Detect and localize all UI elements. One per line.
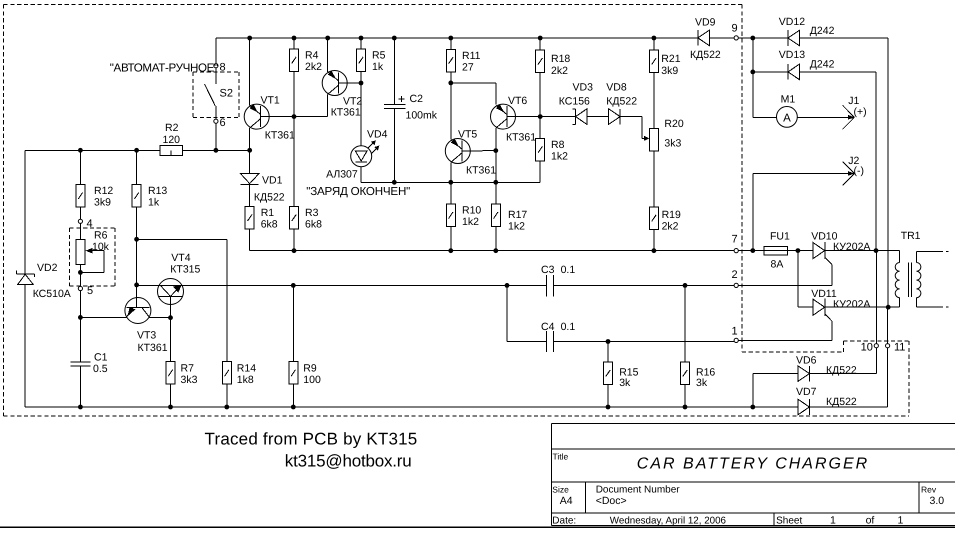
label R9 value (303, 362, 321, 386)
wire R18 top (539, 38, 541, 50)
wire node5 down (79, 291, 81, 363)
wire VT2 base (339, 82, 361, 84)
wire VD4 bottom (361, 167, 394, 183)
transistor VT4 (158, 279, 184, 305)
wire M1 to J1 (797, 116, 852, 118)
svg-text:2k2: 2k2 (305, 61, 322, 73)
svg-text:3k9: 3k9 (661, 65, 678, 77)
svg-text:Document Number: Document Number (596, 484, 681, 495)
label C3 (541, 264, 575, 276)
wire R10 top (450, 182, 452, 204)
junction (325, 36, 330, 41)
junction (292, 248, 297, 253)
svg-text:"АВТОМАТ-РУЧНОЕ": "АВТОМАТ-РУЧНОЕ" (110, 61, 218, 74)
resistor R16 (681, 362, 690, 385)
diode VD6 (798, 366, 810, 382)
diode VD8 (609, 109, 621, 125)
node 5 (78, 286, 82, 290)
label VD1 (254, 175, 285, 204)
junction (652, 36, 657, 41)
label R20 (664, 118, 683, 150)
wire R16 bottom (684, 385, 686, 408)
bottom border (0, 526, 955, 528)
resistor R4 (290, 49, 299, 72)
wire R9 bottom (292, 384, 294, 407)
label R15 value (619, 367, 638, 390)
svg-text:R12: R12 (94, 185, 113, 197)
svg-text:6k8: 6k8 (305, 219, 322, 231)
wire R5 bottom (360, 71, 362, 83)
node 7 (734, 249, 738, 253)
label VT6 (506, 95, 536, 143)
svg-text:2k2: 2k2 (662, 220, 679, 232)
svg-text:Title: Title (553, 451, 569, 461)
junction (606, 405, 611, 410)
svg-text:R3: R3 (305, 207, 319, 219)
svg-text:VD1: VD1 (262, 175, 283, 187)
wire VD6 branch (753, 374, 798, 407)
svg-text:3k: 3k (619, 377, 631, 389)
wire VD13 line (753, 71, 788, 73)
wire base net long (137, 284, 547, 286)
wire R15 bottom (607, 385, 609, 408)
wire C4 line right (553, 341, 734, 343)
svg-text:100mk: 100mk (406, 110, 438, 122)
transformer TR1 core (909, 263, 912, 298)
junction (214, 148, 219, 153)
svg-text:7: 7 (732, 234, 738, 246)
wire R16 top (684, 285, 686, 362)
resistor R14 (222, 362, 231, 385)
svg-text:R17: R17 (508, 209, 527, 221)
junction (134, 283, 139, 288)
svg-text:VT4: VT4 (171, 252, 190, 264)
wire C2 bottom (393, 109, 395, 183)
wire R21-R20 (653, 73, 655, 129)
svg-text:VT6: VT6 (508, 95, 527, 107)
svg-text:S2: S2 (220, 87, 233, 99)
wire R4 top (293, 38, 295, 49)
junction (448, 180, 453, 185)
footer text (205, 429, 418, 470)
label R4 value (305, 50, 322, 74)
transistor VT2 (322, 70, 347, 95)
svg-text:VT5: VT5 (458, 129, 477, 141)
junction (247, 36, 252, 41)
wire R21 top (653, 38, 655, 50)
wire VT5 base (462, 150, 496, 152)
label R17 value (508, 209, 527, 233)
wire R19 bottom (653, 229, 655, 250)
wire T11 up (887, 307, 889, 343)
label J1 (848, 95, 866, 118)
svg-text:100: 100 (303, 374, 321, 386)
wire R11 top (450, 38, 452, 49)
svg-text:1k: 1k (372, 61, 384, 73)
svg-text:VT3: VT3 (137, 330, 156, 342)
svg-text:КС510А: КС510А (33, 288, 71, 300)
wire VD10 in (798, 250, 813, 252)
node 9 (734, 36, 738, 40)
svg-text:C3: C3 (541, 264, 555, 276)
wire VT4 emitter (170, 304, 172, 361)
svg-text:C2: C2 (410, 93, 424, 105)
svg-text:КТ315: КТ315 (170, 264, 200, 276)
wire J2 (753, 174, 853, 251)
label VD11 (811, 288, 870, 310)
junction (224, 405, 229, 410)
wire VD3-VD8 (587, 116, 609, 118)
svg-text:1k: 1k (148, 197, 160, 209)
svg-text:Wednesday, April 12, 2006: Wednesday, April 12, 2006 (610, 515, 727, 526)
svg-text:1k2: 1k2 (462, 216, 479, 228)
svg-text:<Doc>: <Doc> (596, 495, 627, 507)
wire node1 (738, 339, 832, 341)
wire R17 bottom (495, 227, 497, 251)
svg-text:VD8: VD8 (606, 82, 627, 94)
svg-text:КД522: КД522 (690, 49, 721, 61)
svg-text:VD13: VD13 (779, 49, 805, 61)
svg-text:КС156: КС156 (559, 96, 590, 108)
junction (359, 81, 364, 86)
potentiometer R6 (76, 240, 104, 273)
svg-text:0.1: 0.1 (561, 264, 576, 276)
svg-text:8A: 8A (771, 259, 784, 271)
svg-text:1k2: 1k2 (508, 221, 525, 233)
junction (292, 114, 297, 119)
svg-text:6: 6 (220, 117, 226, 129)
node 10 (874, 344, 878, 348)
thyristor VD11 (813, 299, 832, 341)
wire VD6 to T10 (809, 348, 876, 374)
svg-text:Size: Size (552, 484, 569, 494)
wire left drop (752, 38, 754, 117)
wire base net long right (553, 284, 734, 286)
svg-text:1: 1 (830, 514, 836, 526)
svg-text:3k: 3k (696, 377, 708, 389)
junction (750, 248, 755, 253)
right dashed border (rectifier box) (742, 341, 909, 416)
wire VD11 in (798, 306, 813, 308)
svg-text:R21: R21 (661, 53, 680, 65)
svg-text:M1: M1 (781, 94, 796, 106)
svg-text:3k3: 3k3 (664, 138, 681, 150)
svg-text:Д242: Д242 (810, 25, 835, 37)
svg-text:Rev: Rev (921, 484, 937, 494)
transformer TR1 primary (895, 251, 899, 308)
wire R8 bottom (539, 161, 541, 182)
wire R13 top (136, 150, 138, 184)
svg-text:(+): (+) (854, 106, 867, 118)
svg-text:3.0: 3.0 (930, 495, 945, 507)
junction (134, 148, 139, 153)
svg-text:5: 5 (87, 285, 93, 297)
resistor R5 (357, 49, 366, 72)
wire base branch to R14 (137, 239, 227, 361)
junction (750, 36, 755, 41)
label VT1 (261, 95, 296, 142)
title block text (552, 451, 944, 526)
svg-text:3k3: 3k3 (181, 374, 198, 386)
wire VD10 out (825, 250, 900, 252)
svg-text:АЛ307: АЛ307 (326, 169, 358, 181)
junction (874, 248, 879, 253)
junction (505, 283, 510, 288)
junction (493, 248, 498, 253)
svg-text:КТ361: КТ361 (466, 164, 496, 176)
svg-text:КУ202А: КУ202А (833, 299, 870, 311)
wire VD8 to R20 (620, 117, 642, 139)
label VD2 (33, 262, 71, 300)
wire VD7 to T11 (809, 348, 887, 407)
wire node7 rail (250, 250, 734, 252)
svg-text:Traced from PCB by KT315: Traced from PCB by KT315 (205, 429, 418, 448)
svg-text:VT1: VT1 (261, 95, 280, 107)
wire R10 bottom (450, 227, 452, 251)
label R16 value (696, 367, 715, 390)
svg-text:R10: R10 (462, 205, 481, 217)
svg-text:КД522: КД522 (254, 192, 285, 204)
junction (538, 114, 543, 119)
junction (359, 36, 364, 41)
fuse FU1 (764, 246, 788, 255)
wire R17 top (495, 182, 497, 204)
svg-text:1k8: 1k8 (237, 374, 254, 386)
label C2 (406, 93, 438, 121)
resistor R21 (649, 50, 658, 73)
wire FU1 to VD11 (797, 251, 799, 308)
wire R14 bottom (226, 384, 228, 407)
junction (78, 315, 83, 320)
junction (78, 148, 83, 153)
label R7 value (181, 362, 198, 386)
junction (606, 339, 611, 344)
label R14 value (237, 362, 256, 386)
wire FU1 (738, 250, 798, 252)
svg-text:КТ361: КТ361 (138, 342, 168, 354)
resistor R1 (245, 207, 254, 230)
junction (683, 405, 688, 410)
resistor R13 (132, 185, 141, 208)
title block frame (551, 423, 955, 525)
wire R1 bottom (249, 229, 251, 251)
svg-text:R20: R20 (664, 118, 683, 130)
svg-text:КД522: КД522 (826, 396, 857, 408)
node 11 (886, 344, 890, 348)
svg-text:of: of (866, 514, 875, 526)
node 8 (214, 64, 218, 68)
label J2 (848, 155, 864, 177)
transistor VT1 (244, 104, 269, 129)
wire C4 line (507, 341, 546, 343)
capacitor C1 (71, 362, 91, 366)
svg-text:КТ361: КТ361 (331, 106, 361, 118)
wire R3 bottom (293, 229, 295, 251)
label VD7 (796, 386, 857, 408)
wire R11 to VT6 (451, 83, 496, 104)
label VD12 (779, 16, 835, 37)
junction (291, 283, 296, 288)
wire left vertical (24, 150, 26, 407)
wire collector rail (361, 181, 540, 183)
svg-text:VD6: VD6 (796, 354, 817, 366)
resistor R2 (160, 146, 183, 156)
wire VD4 top (360, 83, 362, 146)
svg-text:A: A (783, 112, 791, 124)
wire VT6 collector (495, 128, 497, 182)
wire T10 up (875, 251, 877, 344)
svg-text:VD2: VD2 (37, 262, 58, 274)
resistor R19 (649, 207, 658, 230)
potentiometer R20 (642, 129, 659, 152)
switch S2 (205, 68, 216, 119)
resistor R18 (536, 50, 545, 73)
junction (247, 148, 252, 153)
resistor R12 (76, 185, 85, 208)
svg-text:0.5: 0.5 (93, 363, 108, 375)
junction (886, 305, 891, 310)
transistor VT6 (491, 104, 516, 129)
resistor R11 (446, 49, 455, 72)
label R5 value (372, 50, 386, 74)
junction (292, 36, 297, 41)
svg-text:kt315@hotbox.ru: kt315@hotbox.ru (285, 452, 412, 471)
label R11 value (462, 50, 481, 74)
wire VD11 out (825, 306, 900, 308)
zener VD3 (573, 109, 588, 125)
svg-text:FU1: FU1 (770, 231, 790, 243)
junction (392, 36, 397, 41)
svg-text:VD12: VD12 (779, 16, 805, 28)
port J1 (843, 105, 855, 129)
junction (538, 36, 543, 41)
junction (493, 180, 498, 185)
resistor R7 (166, 362, 175, 385)
wire VD12 drop (887, 38, 889, 307)
svg-text:1k2: 1k2 (551, 151, 568, 163)
svg-text:VD7: VD7 (796, 386, 817, 398)
wire VT6 base (507, 116, 540, 118)
label R13 value (148, 185, 167, 209)
transistor VT5 (445, 138, 470, 163)
label VD9 (690, 16, 721, 61)
capacitor C4 (546, 331, 553, 352)
junction (652, 248, 657, 253)
resistor R3 (290, 207, 299, 230)
label C4 (541, 321, 575, 333)
wire R3 top (293, 117, 295, 207)
capacitor C3 (546, 275, 553, 296)
label FU1 (770, 231, 790, 271)
label R19 value (662, 209, 681, 232)
wire S2 to rail (215, 123, 217, 150)
wire node4 to R6 (79, 223, 81, 239)
wire mid rail (25, 149, 250, 151)
diode VD13 (788, 64, 800, 80)
junction (168, 405, 173, 410)
label VT3 (137, 330, 168, 355)
wire R11 bottom (450, 72, 452, 140)
svg-text:"ЗАРЯД ОКОНЧЕН": "ЗАРЯД ОКОНЧЕН" (306, 185, 410, 198)
main dashed border (4, 5, 910, 417)
junction (134, 237, 139, 242)
junction (750, 70, 755, 75)
wire R13 bottom (136, 207, 138, 308)
svg-text:TR1: TR1 (901, 230, 921, 242)
label R12 value (94, 185, 113, 209)
svg-text:0.1: 0.1 (561, 321, 576, 333)
S2 dashed box (193, 72, 239, 118)
label VD8 (606, 82, 637, 108)
wire S2 drop (215, 38, 217, 64)
svg-text:9: 9 (732, 22, 738, 34)
diode VD7 (798, 399, 810, 415)
label VT5 (458, 129, 496, 177)
svg-text:R9: R9 (303, 362, 317, 374)
led VD4 (351, 140, 380, 166)
svg-text:КД522: КД522 (606, 96, 637, 108)
wire top rail (216, 37, 698, 39)
svg-text:R18: R18 (551, 53, 570, 65)
svg-text:R14: R14 (237, 362, 256, 374)
label VD10 (811, 231, 870, 253)
junction (448, 248, 453, 253)
label R1 value (261, 207, 278, 231)
svg-text:Д242: Д242 (810, 58, 835, 70)
junction (168, 315, 173, 320)
R6 dashed box (70, 228, 116, 286)
svg-text:Sheet: Sheet (776, 515, 802, 526)
junction (448, 36, 453, 41)
wire VT1 base (261, 94, 328, 116)
svg-text:R5: R5 (372, 50, 386, 62)
wire R20-R19 (653, 151, 655, 207)
transistor VT3 (125, 298, 151, 324)
junction (291, 405, 296, 410)
wire M1 left (753, 116, 777, 118)
junction (493, 148, 498, 153)
wire node9 rail (738, 37, 888, 39)
wire bottom rail (25, 406, 798, 408)
svg-text:R1: R1 (261, 207, 275, 219)
ammeter M1 (777, 107, 798, 128)
svg-text:R4: R4 (305, 50, 319, 62)
diode VD1 (241, 150, 259, 206)
wire VT2 collector (327, 94, 329, 116)
svg-text:6k8: 6k8 (261, 219, 278, 231)
resistor R10 (446, 204, 455, 227)
label C1 (93, 352, 108, 376)
svg-text:10k: 10k (92, 241, 110, 253)
label R10 value (462, 205, 481, 229)
wire R9 top (292, 285, 294, 361)
svg-text:КТ361: КТ361 (506, 132, 536, 144)
svg-text:R8: R8 (551, 139, 565, 151)
junction (392, 180, 397, 185)
junction (750, 405, 755, 410)
svg-text:27: 27 (462, 62, 474, 74)
svg-text:10: 10 (861, 342, 873, 354)
node 6 (214, 119, 218, 123)
wire VD3 line (540, 116, 575, 118)
diode VD9 (698, 30, 710, 46)
capacitor C2 (384, 96, 405, 108)
wire VT3 right (150, 317, 171, 319)
wire VD13 to T10 (800, 72, 877, 251)
label VT4 (170, 252, 200, 276)
label VD4 (326, 129, 387, 181)
resistor R9 (289, 362, 298, 385)
